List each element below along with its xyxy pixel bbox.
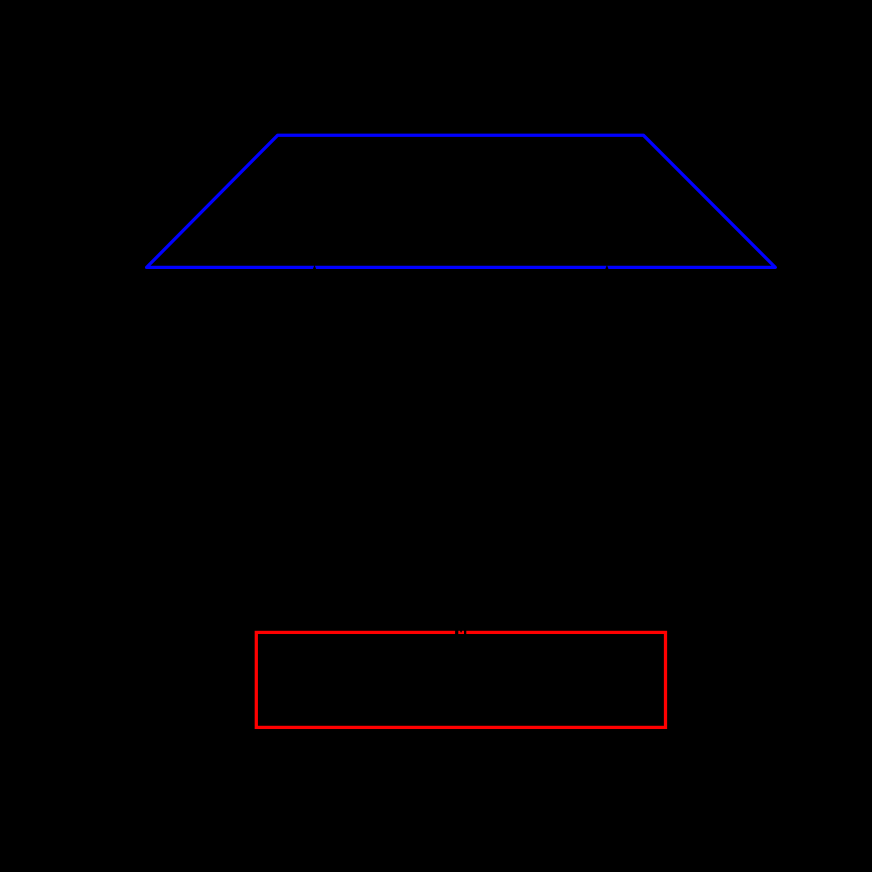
label vee bite (black, over rectangle top edge) bbox=[460, 630, 463, 633]
arrowhead notch right (black, over trapezoid base) bbox=[605, 265, 609, 270]
label stroke cut right (black, over rectangle top edge) bbox=[464, 630, 466, 635]
rectangle outline (red) bbox=[256, 632, 665, 727]
label stroke cut left (black, over rectangle top edge) bbox=[455, 630, 458, 635]
arrowhead notch left (black, over trapezoid base) bbox=[313, 265, 317, 270]
trapezoid outline (blue cross-section) bbox=[147, 135, 776, 267]
